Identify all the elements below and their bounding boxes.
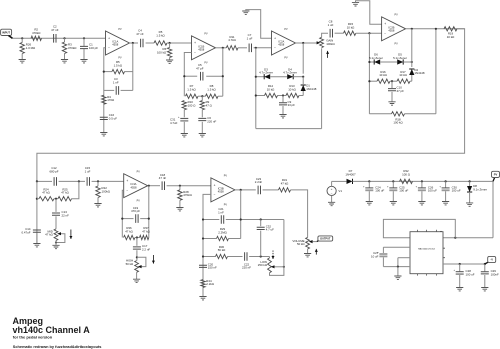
svg-text:680 pF: 680 pF bbox=[50, 170, 59, 174]
svg-text:4.7v Zener: 4.7v Zener bbox=[283, 71, 297, 75]
resistor R22 100k shunt bbox=[96, 186, 100, 198]
wire negative rail out bbox=[443, 263, 485, 265]
op-amp IC2A 4558 bbox=[272, 31, 296, 55]
node C5 left bbox=[183, 75, 185, 77]
potentiometer HIGH 50k bbox=[135, 261, 139, 273]
ground below C1 bbox=[80, 60, 87, 63]
svg-text:33 pF: 33 pF bbox=[288, 103, 296, 107]
resistor R19 10k series bbox=[444, 27, 457, 31]
wire R11 to C7 bbox=[238, 47, 247, 49]
node R16 row left bbox=[368, 80, 370, 82]
svg-text:47 pF: 47 pF bbox=[196, 67, 204, 71]
resistor R32 100 ohm rail bbox=[400, 179, 413, 183]
svg-text:10 kΩ: 10 kΩ bbox=[447, 35, 455, 39]
resistor R8 1.5k bbox=[206, 94, 219, 98]
wire to R3 bbox=[64, 38, 66, 42]
diode D3 4.7v zener bbox=[264, 74, 270, 79]
capacitor C12 680pF bbox=[54, 177, 56, 186]
wire C1 to ground bbox=[83, 49, 85, 60]
resistor R10 100 ohm bbox=[182, 101, 186, 110]
wire to C30 bbox=[445, 181, 447, 188]
svg-text:100 kΩ: 100 kΩ bbox=[393, 121, 403, 125]
wire C21 row right bbox=[226, 219, 284, 221]
svg-text:4558: 4558 bbox=[198, 48, 204, 52]
op-amp IC2B 4558 bbox=[382, 17, 406, 41]
svg-text:47 kΩ: 47 kΩ bbox=[281, 182, 289, 186]
wire junction to C13 bbox=[55, 199, 57, 212]
svg-text:4558: 4558 bbox=[112, 43, 118, 47]
node C25 tap bbox=[392, 180, 394, 182]
resistor R11 4.7k series bbox=[226, 46, 238, 50]
svg-text:1.0 MΩ: 1.0 MΩ bbox=[26, 46, 36, 50]
wire to R30 bbox=[203, 256, 216, 258]
wire R7 to R8 bbox=[198, 95, 206, 97]
wire U1 pin4 row bbox=[383, 266, 410, 268]
svg-text:100nF: 100nF bbox=[491, 273, 499, 277]
ground below R3 bbox=[61, 60, 68, 63]
ground below C9 bbox=[279, 115, 286, 118]
wire V1 bottom stub bbox=[331, 196, 333, 203]
node between C12 C15 bbox=[78, 180, 80, 182]
resistor R25 47k bbox=[58, 197, 72, 201]
wire junction to C17 bbox=[136, 238, 138, 246]
op-amp IC1A 4558 bbox=[106, 31, 130, 55]
svg-text:4558: 4558 bbox=[388, 29, 394, 33]
wire V1 to D7 bbox=[332, 180, 347, 182]
node -V supply label bbox=[488, 256, 496, 262]
svg-text:PV: PV bbox=[394, 42, 398, 45]
svg-text:170Ω: 170Ω bbox=[107, 98, 115, 102]
diode D2 1N4148 bbox=[409, 69, 414, 75]
diode D4 4.7v zener bbox=[287, 74, 293, 79]
capacitor C20 150nF bbox=[199, 265, 207, 267]
arrow VOLUME pot direction bbox=[315, 249, 317, 255]
capacitor C14 0.47uF bbox=[33, 230, 41, 232]
resistor R18 100k feedback bbox=[392, 112, 405, 116]
svg-text:10 kΩ: 10 kΩ bbox=[399, 73, 407, 77]
node R12 row left bbox=[255, 94, 257, 96]
node stage4 feedback tap bbox=[368, 32, 370, 34]
wire C17 to HIGH pot bbox=[136, 250, 138, 260]
wire R13 right bbox=[299, 95, 303, 97]
resistor R26 1.0M shunt bbox=[20, 43, 24, 54]
node R36 R37 junction bbox=[136, 236, 138, 238]
capacitor C5 47pF feedback bbox=[201, 72, 203, 81]
wire D3 to D4 bbox=[270, 76, 287, 78]
ground below D8 bbox=[466, 203, 473, 206]
svg-text:2.2kΩ: 2.2kΩ bbox=[206, 282, 214, 286]
node diode row right bbox=[302, 76, 304, 78]
wire to ground bbox=[397, 267, 399, 276]
output lead stroke bbox=[317, 240, 320, 242]
wire D4 right bbox=[293, 76, 303, 78]
capacitor C30 100uF bbox=[442, 187, 450, 189]
diode D7 1N4007 bbox=[347, 179, 353, 184]
wire IC1B output bbox=[216, 47, 227, 49]
node R24 row tap bbox=[36, 198, 38, 200]
svg-text:1 uF: 1 uF bbox=[328, 23, 334, 27]
wire V1 top stub bbox=[331, 181, 333, 186]
wire input line to IC1A + input bbox=[13, 37, 106, 39]
wire stage3 feedback bottom row bbox=[256, 128, 322, 130]
wire y237 run to IC pin bbox=[441, 237, 493, 239]
svg-text:100 uF: 100 uF bbox=[452, 189, 461, 193]
op-amp IC1B 4558 bbox=[192, 36, 216, 60]
wire C24 to ground bbox=[368, 191, 370, 201]
input lead-in stroke bbox=[9, 36, 13, 39]
wire C5 right bbox=[206, 75, 223, 77]
svg-text:100 uF: 100 uF bbox=[375, 189, 384, 193]
ground below R44 bbox=[199, 297, 206, 300]
wire ground to IC2B + input bbox=[356, 1, 382, 25]
ground below C31 bbox=[181, 134, 188, 137]
svg-text:−: − bbox=[126, 189, 128, 193]
capacitor C23 2.2nF coupling bbox=[258, 186, 260, 195]
wire IC2A output to GAIN wiper bbox=[296, 42, 318, 44]
wire C15 to IC3A + input bbox=[92, 180, 124, 182]
svg-text:9.1v Zener: 9.1v Zener bbox=[473, 187, 487, 191]
wire to C25 bbox=[392, 181, 394, 188]
svg-text:4558: 4558 bbox=[278, 43, 284, 47]
svg-text:1 nF: 1 nF bbox=[113, 80, 119, 84]
node loop tap bbox=[454, 237, 456, 239]
diode D6 5.1v zener bbox=[374, 59, 380, 64]
svg-text:+: + bbox=[214, 183, 216, 187]
wire junction to C9 bbox=[282, 96, 284, 103]
wire U1 pin2 to C27 top bbox=[383, 246, 410, 248]
node C19 left bbox=[121, 218, 123, 220]
arrow GAIN pot direction bbox=[327, 51, 329, 58]
wire C28 to ground bbox=[459, 275, 461, 288]
ground below C24 bbox=[366, 202, 373, 205]
node PV supply label bbox=[492, 171, 500, 177]
INPUT connector box bbox=[1, 29, 12, 35]
svg-text:−: − bbox=[108, 46, 110, 50]
node input junction bbox=[21, 37, 23, 39]
svg-text:1 uF: 1 uF bbox=[247, 37, 253, 41]
resistor R5 1.5k feedback bbox=[112, 69, 125, 73]
wire R5 to right vertical bbox=[125, 71, 133, 73]
node IC1B output feedback tap bbox=[222, 47, 224, 49]
capacitor C21 1nF feedback bbox=[221, 215, 223, 224]
potentiometer GAIN 100k bbox=[320, 37, 324, 47]
resistor R30 56k bbox=[216, 254, 228, 258]
svg-text:−: − bbox=[214, 193, 216, 197]
wire to C1 bbox=[83, 38, 85, 46]
wire to C12 bbox=[37, 180, 52, 182]
node R12 R13 junction bbox=[282, 94, 284, 96]
wire IC3B output bbox=[235, 189, 256, 191]
ground below C26 bbox=[418, 202, 425, 205]
wire tone stack left vertical bbox=[36, 181, 38, 243]
wire to R5 bbox=[104, 71, 112, 73]
wire to D3 bbox=[256, 76, 264, 78]
resistor R9 47 ohm bbox=[200, 101, 204, 110]
wire D1 top segment bbox=[302, 77, 304, 85]
svg-text:0.47uF: 0.47uF bbox=[22, 230, 31, 234]
wire IC1B inverting leg bbox=[184, 53, 191, 97]
wire junction to R9 bbox=[201, 96, 203, 100]
wire to R24 bbox=[37, 198, 39, 200]
resistor R4 170 ohm leg bbox=[102, 95, 106, 104]
capacitor C15 1uF bbox=[87, 177, 89, 186]
OUTPUT connector box bbox=[318, 236, 333, 241]
node R24 R25 junction bbox=[55, 198, 57, 200]
resistor R15 10k series bbox=[344, 31, 356, 35]
resistor R12 10k bbox=[265, 93, 278, 97]
svg-text:2.2 nF: 2.2 nF bbox=[142, 247, 150, 251]
node C21 row left bbox=[202, 218, 204, 220]
wire R28 to ground bbox=[179, 200, 181, 207]
ground below V1 bbox=[328, 202, 335, 205]
resistor R37 47k bbox=[140, 235, 149, 239]
node IC3A feedback tap bbox=[148, 185, 150, 187]
svg-text:100 Ω: 100 Ω bbox=[402, 173, 411, 177]
op-amp IC3B 4558 bbox=[211, 178, 235, 202]
potentiometer LOW 250k bbox=[268, 258, 272, 273]
wire down to D2 bbox=[411, 29, 413, 67]
wire R12 to R13 bbox=[278, 95, 287, 97]
capacitor C19 470pF feedback bbox=[136, 214, 138, 223]
wire to C19 bbox=[122, 218, 133, 220]
wire D5 right bbox=[403, 61, 412, 63]
wire R10 to C31 bbox=[183, 110, 185, 118]
svg-text:10 kΩ: 10 kΩ bbox=[379, 73, 387, 77]
capacitor C10 47pF bbox=[388, 89, 396, 91]
wire C18 to IC3B + input bbox=[167, 185, 211, 187]
svg-text:OUTPUT: OUTPUT bbox=[320, 238, 331, 241]
node C29 tap bbox=[484, 263, 486, 265]
svg-text:MAX1044/LT1054: MAX1044/LT1054 bbox=[418, 248, 435, 251]
node diode row left bbox=[255, 76, 257, 78]
resistor R7 1.5k bbox=[186, 94, 199, 98]
svg-text:100kΩ: 100kΩ bbox=[326, 42, 335, 46]
capacitor C17 2.2nF bbox=[133, 247, 141, 249]
node LOW wiper tie bbox=[283, 266, 285, 268]
node D8 tap bbox=[469, 180, 471, 182]
capacitor C9 33pF bbox=[279, 103, 287, 105]
svg-text:PV: PV bbox=[118, 28, 122, 31]
arrow LOW pot direction dashed bbox=[272, 251, 274, 260]
capacitor C26 100uF bbox=[418, 187, 426, 189]
resistor R31 47k series bbox=[279, 188, 291, 192]
wire HIGH wiper loop bbox=[137, 257, 146, 266]
wire R6 to ground bbox=[169, 58, 171, 61]
svg-text:1N4148: 1N4148 bbox=[306, 87, 317, 91]
wire ground to IC2A + input bbox=[246, 10, 272, 39]
wire VOLUME wiper to OUTPUT bbox=[313, 241, 317, 243]
ground below VOLUME pot bbox=[304, 254, 311, 257]
wire R9 to C6 bbox=[201, 110, 203, 118]
svg-text:PV: PV bbox=[137, 199, 141, 202]
resistor R13 10k bbox=[286, 93, 299, 97]
node C19 right bbox=[148, 218, 150, 220]
wire C31 to ground bbox=[183, 122, 185, 134]
PV rail lead stroke bbox=[493, 178, 495, 182]
node C5 right bbox=[222, 75, 224, 77]
node MID bottom tie bbox=[55, 241, 57, 243]
svg-text:47 pF: 47 pF bbox=[397, 89, 405, 93]
wire LOW top stub bbox=[269, 257, 271, 258]
svg-text:10 uF: 10 uF bbox=[371, 255, 379, 259]
svg-text:PV: PV bbox=[494, 173, 498, 177]
wire R3 to ground bbox=[64, 54, 66, 60]
svg-text:+: + bbox=[274, 36, 276, 40]
ground below U1 bbox=[394, 276, 401, 279]
wire D1 to R13 row bbox=[302, 91, 304, 96]
svg-text:+: + bbox=[126, 179, 128, 183]
wire to R6 bbox=[169, 43, 171, 48]
wire R36 to R37 bbox=[135, 237, 140, 239]
svg-text:220 nF: 220 nF bbox=[242, 266, 251, 270]
resistor R17 10k bbox=[397, 79, 410, 83]
wire GAIN pot bottom vertical bbox=[321, 48, 323, 128]
wire C14 to ground bbox=[36, 233, 38, 243]
svg-text:47 kΩ: 47 kΩ bbox=[45, 233, 53, 237]
wire R24 to R25 bbox=[54, 198, 58, 200]
node stage3 feedback tap bbox=[255, 47, 257, 49]
svg-text:47 Ω: 47 Ω bbox=[206, 103, 213, 107]
node after C2 bbox=[63, 37, 65, 39]
wire main PV rail bbox=[353, 180, 494, 182]
wire C6 to ground bbox=[201, 122, 203, 134]
resistor R2 470k series bbox=[31, 36, 42, 40]
node C21 row x260 bbox=[260, 218, 262, 220]
svg-text:100 uF: 100 uF bbox=[466, 273, 475, 277]
svg-text:1.5 kΩ: 1.5 kΩ bbox=[187, 87, 196, 91]
wire VOLUME to ground bbox=[307, 249, 309, 254]
wire to D8 bbox=[469, 181, 471, 186]
node C26 tap bbox=[421, 180, 423, 182]
node R7 R8 junction bbox=[201, 95, 203, 97]
capacitor C27 10uF bbox=[379, 253, 387, 255]
node output drop to D2 bbox=[411, 28, 413, 30]
svg-text:100kΩ: 100kΩ bbox=[102, 189, 111, 193]
wire PV rail drop right side bbox=[492, 181, 494, 237]
wire pin3 down bbox=[397, 258, 399, 267]
wire stub to U1 top right pin bbox=[440, 232, 442, 238]
resistor R5b 1.5k series bbox=[154, 41, 167, 45]
wire R29 right bbox=[229, 238, 241, 240]
ground below R6 bbox=[166, 60, 173, 63]
wire C22 to LOW pot bbox=[249, 256, 269, 258]
wire R26 to ground bbox=[21, 54, 23, 60]
ground below HIGH pot bbox=[133, 279, 140, 282]
wire C12 to C15 bbox=[59, 180, 85, 182]
node feedback output tap bbox=[435, 28, 437, 30]
wire C19 right bbox=[140, 218, 149, 220]
capacitor C29 100nF bbox=[481, 272, 489, 274]
wire C30 to ground bbox=[445, 191, 447, 201]
arrow MID pot direction bbox=[70, 230, 72, 240]
resistor R6 100k shunt bbox=[167, 48, 171, 58]
wire IC1A inverting input down leg bbox=[104, 48, 106, 133]
potentiometer VOLUME 50k bbox=[306, 237, 310, 249]
svg-text:47 kΩ: 47 kΩ bbox=[61, 191, 69, 195]
diode D5 5.1v zener bbox=[397, 59, 403, 64]
ground below R22 bbox=[94, 204, 101, 207]
wire GAIN top to C8 bbox=[322, 33, 328, 37]
ground below C14 bbox=[33, 244, 40, 247]
svg-text:PV: PV bbox=[224, 175, 228, 178]
capacitor C2 47nF series bbox=[54, 34, 56, 43]
wire stage4 bottom row left bbox=[369, 113, 391, 115]
wire D8 to ground bbox=[469, 192, 471, 203]
svg-text:4558: 4558 bbox=[131, 185, 137, 189]
node R5 left bbox=[103, 71, 105, 73]
capacitor C6 220nF bbox=[198, 118, 206, 120]
svg-text:4558: 4558 bbox=[218, 190, 224, 194]
svg-text:0.5 uF: 0.5 uF bbox=[109, 116, 117, 120]
svg-text:47 kΩ: 47 kΩ bbox=[42, 191, 50, 195]
wire stage3 feedback left vertical bbox=[255, 48, 257, 129]
capacitor C16 0.5uF leg bbox=[100, 117, 108, 119]
wire down to C27 bbox=[382, 247, 384, 253]
ground below R28 bbox=[176, 208, 183, 211]
svg-text:5.1v Zener: 5.1v Zener bbox=[393, 56, 407, 60]
wire C9 to ground bbox=[282, 106, 284, 115]
node R28 tap bbox=[179, 185, 181, 187]
svg-text:PV: PV bbox=[394, 14, 398, 17]
wire D2 to R17 row bbox=[411, 75, 413, 81]
wire C7 to IC2A inverting input bbox=[254, 47, 272, 49]
svg-text:50 kΩ: 50 kΩ bbox=[297, 242, 305, 246]
capacitor C25 100uF bbox=[389, 187, 397, 189]
node C30 tap bbox=[445, 180, 447, 182]
capacitor C31 4.7uF bbox=[180, 117, 188, 119]
svg-text:4.7uF: 4.7uF bbox=[170, 121, 178, 125]
node U1 pin8 tie bbox=[440, 231, 442, 233]
svg-text:1 nF: 1 nF bbox=[218, 210, 224, 214]
svg-text:10 kΩ: 10 kΩ bbox=[347, 26, 355, 30]
svg-text:47 kΩ: 47 kΩ bbox=[142, 229, 150, 233]
resistor R3 370k shunt bbox=[62, 42, 66, 54]
svg-text:+: + bbox=[108, 36, 110, 40]
wire output down to D1 bbox=[302, 43, 304, 74]
arrow HIGH pot direction bbox=[152, 255, 154, 264]
svg-text:−: − bbox=[274, 46, 276, 50]
node R22 tap bbox=[97, 180, 99, 182]
wire MID to ground bbox=[55, 241, 57, 246]
wire IC3A feedback right vertical bbox=[148, 186, 150, 238]
wire IC1A output bbox=[130, 42, 139, 44]
capacitor C18 47nF coupling bbox=[162, 181, 164, 190]
wire MID wiper loop bbox=[56, 234, 65, 243]
wire C3 to right vertical bbox=[121, 89, 133, 91]
capacitor C3 1nF feedback bbox=[116, 86, 118, 95]
node tone stack top left bbox=[36, 180, 38, 182]
wire C13 to MID pot bbox=[55, 216, 57, 229]
wire C8 to R15 bbox=[335, 32, 344, 34]
wire feedback right vertical bbox=[132, 43, 134, 90]
node IC3B output feedback tap bbox=[240, 189, 242, 191]
capacitor C13 22nF bbox=[52, 213, 60, 215]
node R29 left bbox=[202, 237, 204, 239]
ground below C16 bbox=[100, 133, 107, 136]
wire C25 to ground bbox=[392, 191, 394, 201]
ground below C10 bbox=[388, 102, 395, 105]
ground below R26 bbox=[19, 60, 26, 63]
node output drop bbox=[302, 42, 304, 44]
svg-text:4.7 uF: 4.7 uF bbox=[266, 228, 274, 232]
wire to R22 bbox=[97, 181, 99, 186]
svg-text:47 nF: 47 nF bbox=[159, 176, 167, 180]
svg-text:+: + bbox=[194, 41, 196, 45]
node stage4 diode row left bbox=[368, 61, 370, 63]
node stage4 diode row right bbox=[411, 61, 413, 63]
resistor R28 470k shunt bbox=[178, 190, 182, 201]
wire HIGH to ground bbox=[136, 272, 138, 279]
